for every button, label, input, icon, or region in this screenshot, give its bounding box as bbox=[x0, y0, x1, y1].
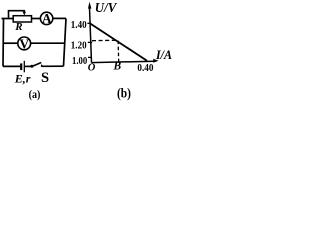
ammeter A circle bbox=[40, 12, 52, 24]
svg-text:V: V bbox=[19, 36, 29, 51]
svg-text:(b): (b) bbox=[117, 87, 131, 102]
switch S pivot dot bbox=[30, 65, 33, 68]
svg-text:R: R bbox=[14, 21, 22, 33]
wire: left rail bbox=[2, 18, 5, 66]
battery positive plate (long thin) bbox=[23, 61, 25, 73]
svg-text:S: S bbox=[41, 70, 49, 86]
battery negative plate (short thick) bbox=[20, 63, 22, 70]
tick 1.40 bbox=[87, 22, 91, 24]
dashed level 1.20 bbox=[92, 39, 117, 42]
x-axis arrowhead bbox=[153, 59, 158, 63]
y-axis U bbox=[89, 5, 91, 63]
tick 1.00 bbox=[88, 56, 92, 58]
svg-text:0.40: 0.40 bbox=[137, 63, 153, 74]
svg-text:1.40: 1.40 bbox=[71, 19, 87, 31]
wire: right rail bbox=[64, 18, 67, 66]
wire: ammeter to right rail bbox=[53, 17, 66, 19]
wire: top row left segment into R bbox=[2, 18, 14, 20]
U-I line bbox=[90, 23, 147, 60]
svg-text:(a): (a) bbox=[29, 87, 41, 101]
wire: battery to switch bbox=[25, 65, 31, 67]
voltmeter V circle bbox=[18, 37, 31, 50]
svg-text:B: B bbox=[113, 60, 122, 72]
resistor R box bbox=[13, 16, 31, 22]
tick 1.20 bbox=[88, 41, 92, 43]
svg-text:I/A: I/A bbox=[155, 47, 172, 62]
svg-text:1.00: 1.00 bbox=[72, 55, 88, 67]
rheostat slider arrowhead bbox=[23, 12, 26, 16]
x-axis I bbox=[92, 61, 156, 62]
wire: voltmeter row right bbox=[31, 42, 65, 44]
switch S lever bbox=[33, 63, 41, 67]
wire: switch to right rail bbox=[42, 65, 64, 67]
wire: voltmeter row left bbox=[3, 42, 18, 44]
wire: R to ammeter bbox=[32, 18, 41, 20]
svg-text:U/V: U/V bbox=[95, 1, 118, 16]
wire: bottom row left segment bbox=[3, 65, 20, 67]
svg-text:A: A bbox=[42, 11, 52, 26]
dashed drop to B bbox=[117, 41, 120, 62]
svg-text:O: O bbox=[88, 62, 96, 73]
y-axis arrowhead bbox=[88, 2, 91, 9]
svg-text:E,r: E,r bbox=[14, 71, 31, 85]
switch fixed contact bbox=[41, 65, 43, 67]
wire: rheostat tap (up, across, down to arrow) bbox=[9, 11, 25, 18]
svg-text:1.20: 1.20 bbox=[71, 40, 87, 52]
